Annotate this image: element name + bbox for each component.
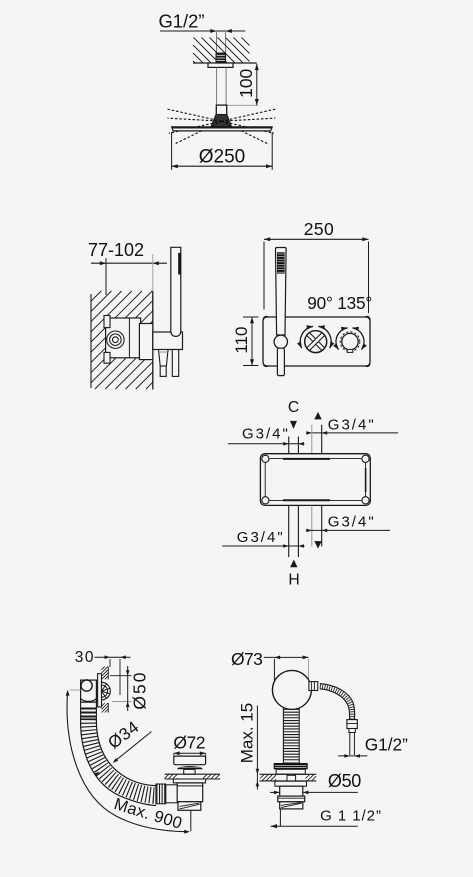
- hose cone below bracket: [159, 350, 169, 367]
- dimension 100: [256, 64, 258, 106]
- nozzle face: [277, 252, 285, 273]
- tub floor: [165, 773, 220, 775]
- hose connector piece: [166, 785, 177, 803]
- shower head disc: [172, 127, 273, 131]
- drop pipe: [216, 67, 218, 105]
- under flange: [275, 781, 307, 786]
- shower arm connector: [216, 105, 226, 115]
- svg-text:H: H: [288, 572, 299, 589]
- svg-text:G3/4": G3/4": [328, 416, 376, 433]
- left knob: [305, 331, 327, 353]
- ceiling hatch: [242, 37, 250, 45]
- extension line left: [105, 258, 107, 295]
- extension lines dia250: [171, 132, 173, 170]
- dimension 110: [243, 316, 259, 318]
- svg-text:110: 110: [232, 327, 251, 354]
- body: [280, 786, 303, 796]
- hand shower handle side: [171, 247, 181, 336]
- svg-text:G3/4": G3/4": [242, 425, 290, 442]
- hose top connector: [81, 702, 97, 719]
- drain dome seal: [177, 766, 203, 769]
- valve body in wall: [106, 318, 141, 358]
- bottom port tab: [104, 352, 110, 363]
- under flange: [173, 779, 205, 783]
- overflow knob: [81, 680, 92, 691]
- drain body: [177, 783, 203, 802]
- arrow down cold in: [290, 421, 297, 429]
- svg-text:G1/2”: G1/2”: [365, 735, 408, 755]
- cone joint: [211, 115, 231, 127]
- arrow up outlet top: [314, 412, 321, 420]
- svg-text:Ø73: Ø73: [231, 649, 262, 669]
- svg-text:100: 100: [236, 68, 256, 97]
- nut: [278, 796, 305, 802]
- svg-text:G3/4": G3/4": [237, 529, 285, 546]
- right knob rotation arcs: [336, 328, 348, 350]
- strainer dome: [102, 682, 111, 700]
- wall plate: [263, 317, 370, 366]
- handle lower tube: [277, 348, 284, 375]
- dimension line 77-102: [91, 262, 167, 264]
- arrow down outlet bottom: [314, 541, 321, 549]
- rosette: [98, 674, 102, 707]
- spray rays: [167, 109, 222, 121]
- ceiling flange: [208, 63, 233, 67]
- dimension Max15: [256, 706, 258, 790]
- wall face: [152, 291, 154, 390]
- cartridge housing: [139, 324, 152, 360]
- ribbed nut: [156, 784, 165, 803]
- dimension dia50 overflow: [127, 666, 129, 711]
- hose nipple: [309, 682, 318, 691]
- holder ball: [272, 670, 311, 709]
- top port tab: [104, 316, 110, 328]
- left knob rotation arcs: [300, 326, 313, 348]
- corner holes: [262, 455, 269, 462]
- stem through deck: [287, 775, 296, 781]
- hose tube below bracket: [172, 350, 178, 377]
- outlet pipe: [349, 733, 351, 756]
- supply pipe stub above ceiling: [216, 31, 218, 53]
- tub wall hatch top: [102, 667, 105, 670]
- deck: [260, 773, 317, 775]
- escutcheon dark: [274, 763, 308, 769]
- dimension dia250: [172, 165, 273, 167]
- corrugated hose: [88, 719, 156, 796]
- flexible hose: [320, 686, 352, 719]
- tail thread: [280, 802, 303, 809]
- svg-text:30: 30: [75, 649, 95, 666]
- svg-text:Ø250: Ø250: [199, 147, 245, 168]
- svg-text:G 1 1/2”: G 1 1/2”: [320, 807, 382, 824]
- ceiling line: [193, 62, 257, 64]
- drain cap: [174, 756, 206, 765]
- nozzle strip: [178, 253, 181, 275]
- bellows stem: [284, 706, 299, 763]
- hand shower front: [276, 248, 287, 336]
- wall left edge: [90, 294, 92, 388]
- svg-text:250: 250: [304, 219, 334, 239]
- cartridge coil: [107, 331, 124, 348]
- svg-text:90° 135°: 90° 135°: [307, 293, 372, 313]
- arc tick: [70, 689, 81, 691]
- svg-text:G1/2”: G1/2”: [159, 11, 205, 32]
- svg-text:77-102: 77-102: [88, 240, 144, 260]
- valve body outline: [260, 454, 370, 506]
- overflow body: [81, 680, 97, 702]
- right knob: [340, 332, 360, 352]
- shower holder bracket: [153, 332, 183, 350]
- tub wall hatch bottom: [102, 703, 105, 706]
- dimension line G1/2: [160, 30, 245, 32]
- bottom collar thread: [178, 802, 201, 811]
- svg-text:Ø72: Ø72: [173, 733, 205, 753]
- svg-text:Ø34: Ø34: [104, 717, 142, 752]
- max900 arc: [67, 693, 186, 832]
- svg-text:Ø50: Ø50: [328, 771, 361, 791]
- svg-text:G3/4": G3/4": [328, 514, 376, 531]
- plate corner ears: [263, 316, 269, 322]
- arrow up hot in: [290, 560, 297, 568]
- hose end fitting: [347, 720, 357, 729]
- svg-text:C: C: [288, 399, 299, 416]
- svg-text:Max. 15: Max. 15: [238, 703, 257, 763]
- extension to 100 dim: [227, 104, 258, 106]
- drain neck: [184, 769, 195, 774]
- svg-text:Ø50: Ø50: [130, 671, 150, 710]
- dia50 extension lines: [110, 675, 132, 677]
- wall hatch: [91, 291, 101, 301]
- threaded connector G1/2: [216, 53, 227, 64]
- top pipes: [288, 437, 290, 455]
- wall face extension: [152, 254, 154, 291]
- bottom pipes: [288, 505, 290, 557]
- holder ring: [274, 335, 287, 348]
